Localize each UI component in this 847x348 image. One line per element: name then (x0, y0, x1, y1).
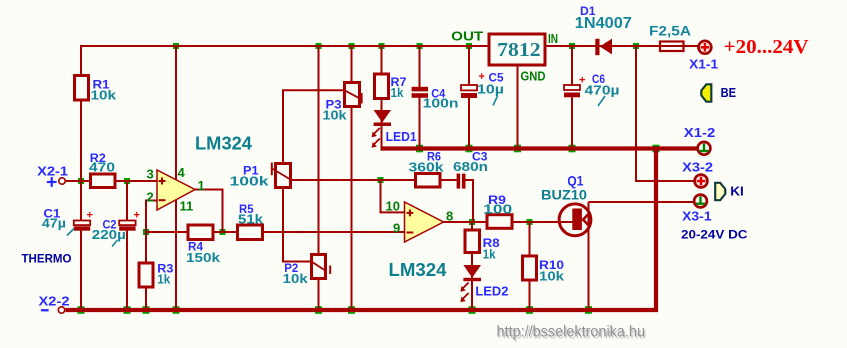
fuse F2,5A (649, 22, 691, 51)
junction gnd rail / C5 bottom (466, 145, 473, 153)
junction 7812 IN / C6 top (569, 43, 575, 49)
ground bus thick (66, 149, 699, 311)
svg-text:X1-2: X1-2 (684, 125, 716, 140)
wire P3 column (351, 46, 353, 310)
svg-text:8: 8 (446, 209, 453, 224)
junction P1 wiper / R6 / pin10 (378, 177, 384, 183)
terminal X1-1 (689, 41, 718, 72)
junction op-amp2 output / R8 top / C3 (469, 219, 475, 225)
potentiometer P3 (323, 83, 362, 123)
wire P3 wiper to P1 top (283, 90, 345, 163)
wire X2-1 to pin3 (66, 180, 157, 182)
svg-text:F2,5A: F2,5A (649, 22, 691, 38)
wire C2 column (126, 181, 128, 221)
capacitor C3 (453, 149, 488, 188)
svg-text:+: + (579, 75, 585, 87)
junction op-amp1 output / R4-R5 (220, 229, 226, 235)
wire op1 output feedback (195, 190, 223, 233)
svg-text:1k: 1k (157, 272, 171, 287)
svg-text:http://bsselektronika.hu: http://bsselektronika.hu (497, 324, 646, 341)
svg-text:2: 2 (147, 190, 154, 205)
LED LED1 (372, 110, 417, 148)
svg-text:10µ: 10µ (477, 82, 504, 97)
svg-text:7812: 7812 (497, 39, 541, 61)
svg-text:LED2: LED2 (475, 284, 508, 299)
resistor R4 (186, 225, 221, 265)
junction bus / R10 bottom (526, 306, 533, 314)
LED LED2 (460, 265, 508, 302)
junction D1 anode / X3-2 branch (633, 43, 639, 49)
junction bus / Q1 source (585, 306, 592, 314)
svg-text:IN: IN (548, 31, 558, 46)
junction bus / P3 bottom (348, 306, 355, 314)
wire P2 column (318, 46, 320, 310)
svg-text:51k: 51k (238, 212, 264, 227)
junction bus / LED2 cathode (469, 306, 476, 314)
wire output row to Q1 (444, 221, 558, 223)
svg-text:4: 4 (178, 165, 186, 180)
svg-text:100k: 100k (230, 174, 270, 189)
junction gnd rail / 7812 GND (514, 145, 521, 153)
wire Q1 drain to X3-1 (589, 201, 695, 203)
wire R10 column (529, 222, 531, 310)
wire C4 column (419, 46, 421, 87)
svg-text:+: + (134, 210, 140, 222)
junction R9 right / R10 top / Q1 gate (527, 219, 533, 225)
junction bus / P2 bottom (315, 306, 322, 314)
capacitor C5 (461, 71, 504, 106)
wire C6 column (571, 46, 573, 85)
junction X2-1 / R1 bottom / C1 top (78, 178, 84, 184)
capacitor C2 (92, 210, 140, 247)
svg-text:47µ: 47µ (42, 216, 66, 231)
resistor R6 (409, 149, 445, 187)
potentiometer P1 (230, 163, 291, 189)
svg-text:3: 3 (147, 167, 154, 182)
resistor R10 (523, 256, 565, 284)
arrow KI (715, 183, 744, 200)
junction bus / LM324 V- pin 11 (173, 306, 180, 314)
svg-text:1k: 1k (391, 85, 405, 100)
terminal X3-2 (682, 159, 713, 187)
svg-text:220µ: 220µ (92, 227, 126, 242)
wire gnd rail mid (381, 146, 699, 150)
wire R7 LED1 column (381, 46, 383, 148)
svg-text:X2-1: X2-1 (37, 164, 68, 179)
op-amp U1B LM324 (389, 202, 447, 280)
svg-text:470: 470 (89, 159, 115, 174)
svg-text:10k: 10k (91, 88, 117, 103)
wire R8 LED2 column (471, 222, 473, 310)
svg-text:KI: KI (730, 184, 744, 199)
svg-text:GND: GND (521, 69, 546, 84)
resistor R1 (75, 76, 117, 103)
svg-text:11: 11 (180, 199, 194, 214)
junction bus / C1 bottom (78, 306, 85, 314)
wire LM324 power column (175, 46, 177, 310)
svg-text:X3-2: X3-2 (682, 159, 713, 174)
resistor R9 (483, 193, 512, 228)
junction top rail / R7 top (379, 43, 385, 49)
potentiometer P2 (283, 255, 331, 287)
wire bottom bus and right drop (66, 149, 657, 311)
svg-text:+: + (87, 210, 93, 222)
resistor R5 (238, 202, 264, 240)
svg-text:X2-2: X2-2 (39, 293, 70, 308)
svg-text:1k: 1k (483, 247, 497, 262)
svg-text:BE: BE (721, 85, 737, 100)
wire X3-2 net (636, 46, 695, 181)
svg-text:X1-1: X1-1 (689, 57, 718, 72)
svg-text:+: + (479, 71, 485, 83)
terminal X2-1 (37, 164, 68, 187)
junction 7812 OUT / C5 top (466, 43, 472, 49)
wire P1 wiper / R6 / C3 row (291, 179, 457, 181)
svg-text:LED1: LED1 (386, 129, 417, 144)
junction bus / C2 bottom (124, 306, 131, 314)
svg-text:X3-1: X3-1 (682, 208, 712, 223)
svg-text:OUT: OUT (451, 28, 483, 43)
svg-text:100n: 100n (423, 96, 459, 111)
resistor R8 (465, 230, 500, 262)
wire top rail right (545, 45, 698, 47)
svg-text:THERMO: THERMO (22, 251, 72, 265)
terminal X1-2 (684, 125, 716, 155)
svg-text:100: 100 (483, 202, 512, 217)
diode D1 1N4007 (575, 4, 632, 55)
junction pin2 loop / R3 top (143, 229, 149, 235)
resistor R3 (139, 262, 174, 288)
terminal X2-2 (39, 293, 70, 313)
svg-text:9: 9 (393, 221, 400, 236)
svg-text:LM324: LM324 (389, 260, 447, 280)
svg-text:+20...24V: +20...24V (724, 36, 810, 58)
junction gnd rail / C4 bottom (416, 145, 423, 153)
svg-text:150k: 150k (186, 250, 221, 265)
transistor Q1 BUZ10 (541, 173, 591, 311)
wire 7812 gnd pin (517, 64, 519, 148)
resistor R2 (89, 151, 115, 188)
wire pin2 loop (146, 201, 157, 233)
arrow BE (701, 84, 736, 101)
wire pin10 stub (381, 180, 405, 212)
op-amp U1A LM324 (157, 134, 252, 211)
svg-text:10k: 10k (323, 108, 348, 123)
junction top rail / P2 top (316, 43, 322, 49)
svg-text:1N4007: 1N4007 (575, 15, 632, 32)
wires thin (66, 45, 698, 310)
capacitor C6 (564, 72, 620, 106)
terminal X3-1 (682, 195, 712, 224)
junction top rail / LM324 V+ pin 4 (173, 43, 179, 49)
svg-text:1: 1 (198, 178, 205, 193)
svg-text:470µ: 470µ (585, 83, 620, 98)
junction top rail / P3 top (349, 43, 355, 49)
svg-text:10: 10 (386, 199, 400, 214)
junction top rail / C4 top (417, 43, 423, 49)
svg-text:360k: 360k (409, 160, 445, 175)
junction bus / R3 bottom (143, 306, 150, 314)
wire R3 column (145, 232, 147, 310)
junction gnd rail / C6 bottom (569, 145, 576, 153)
regulator 7812 (451, 28, 558, 83)
wire inverting rail (146, 231, 405, 233)
capacitor C1 (42, 207, 93, 236)
svg-text:BUZ10: BUZ10 (541, 186, 587, 202)
svg-text:10k: 10k (283, 271, 309, 286)
wire P1 bottom to P2 wiper (283, 188, 312, 262)
svg-text:LM324: LM324 (195, 134, 252, 154)
wire C5 column (468, 46, 470, 85)
svg-text:20-24V DC: 20-24V DC (681, 227, 748, 241)
junction R2 right / C2 top (124, 178, 130, 184)
svg-text:10k: 10k (539, 269, 565, 284)
wire left column R1/C1 (80, 45, 82, 221)
junction gnd rail / right drop (653, 145, 660, 153)
resistor R7 (375, 74, 407, 100)
capacitor C4 (412, 87, 459, 111)
wire top rail left (81, 45, 489, 47)
svg-text:680n: 680n (453, 159, 488, 174)
